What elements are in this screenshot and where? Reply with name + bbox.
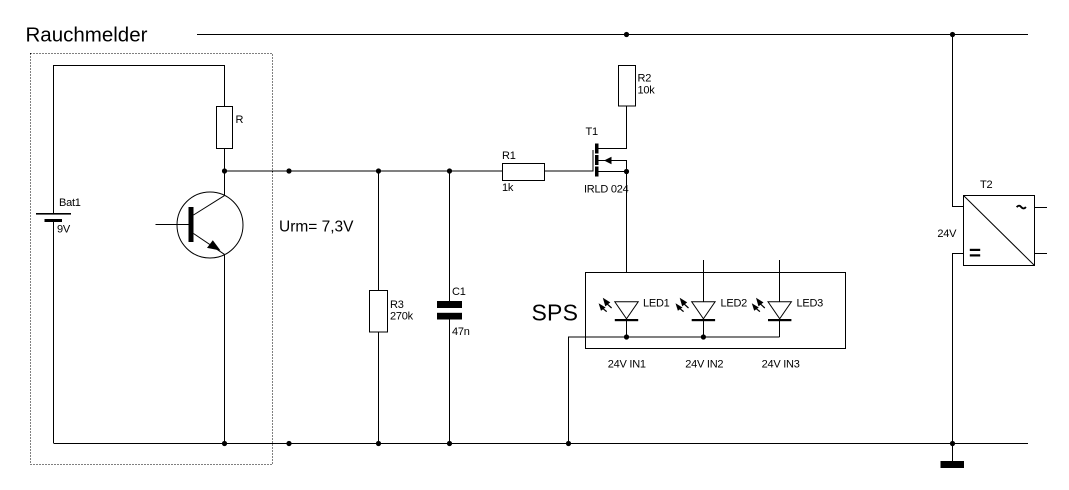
svg-text:T2: T2 [980,179,992,191]
svg-text:LED1: LED1 [643,297,670,309]
svg-text:24V IN2: 24V IN2 [685,359,723,371]
svg-text:T1: T1 [586,126,598,138]
svg-text:9V: 9V [57,224,71,236]
svg-text:10k: 10k [638,85,656,97]
svg-text:LED3: LED3 [797,297,824,309]
svg-text:R2: R2 [638,73,652,85]
svg-text:270k: 270k [390,311,414,323]
svg-text:1k: 1k [502,182,514,194]
svg-text:SPS: SPS [532,300,579,326]
svg-text:24V: 24V [937,228,957,240]
svg-text:Bat1: Bat1 [59,197,81,209]
svg-text:R1: R1 [502,150,516,162]
svg-text:24V IN1: 24V IN1 [608,359,646,371]
svg-text:IRLD 024: IRLD 024 [584,184,629,196]
svg-text:C1: C1 [452,286,466,298]
svg-text:Rauchmelder: Rauchmelder [26,24,148,47]
svg-text:R3: R3 [390,299,404,311]
svg-text:R: R [236,114,244,126]
svg-text:47n: 47n [452,326,470,338]
svg-text:Urm= 7,3V: Urm= 7,3V [279,219,354,236]
svg-text:LED2: LED2 [721,297,748,309]
svg-text:24V IN3: 24V IN3 [762,359,800,371]
